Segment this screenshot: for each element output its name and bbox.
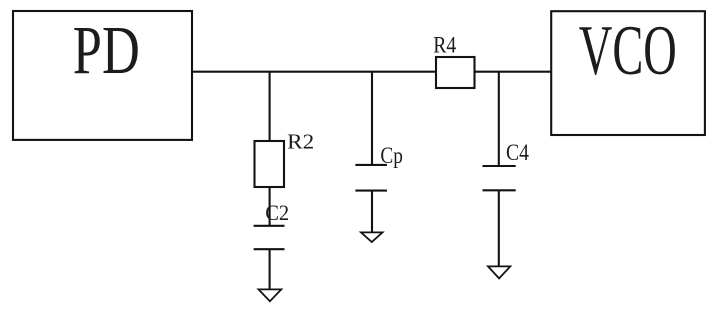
svg-text:Cp: Cp <box>380 143 403 168</box>
svg-text:C2: C2 <box>265 200 289 225</box>
svg-text:R4: R4 <box>433 32 456 57</box>
svg-text:PD: PD <box>73 12 140 88</box>
svg-text:VCO: VCO <box>579 12 677 90</box>
svg-text:R2: R2 <box>287 130 314 154</box>
svg-text:C4: C4 <box>506 140 529 165</box>
